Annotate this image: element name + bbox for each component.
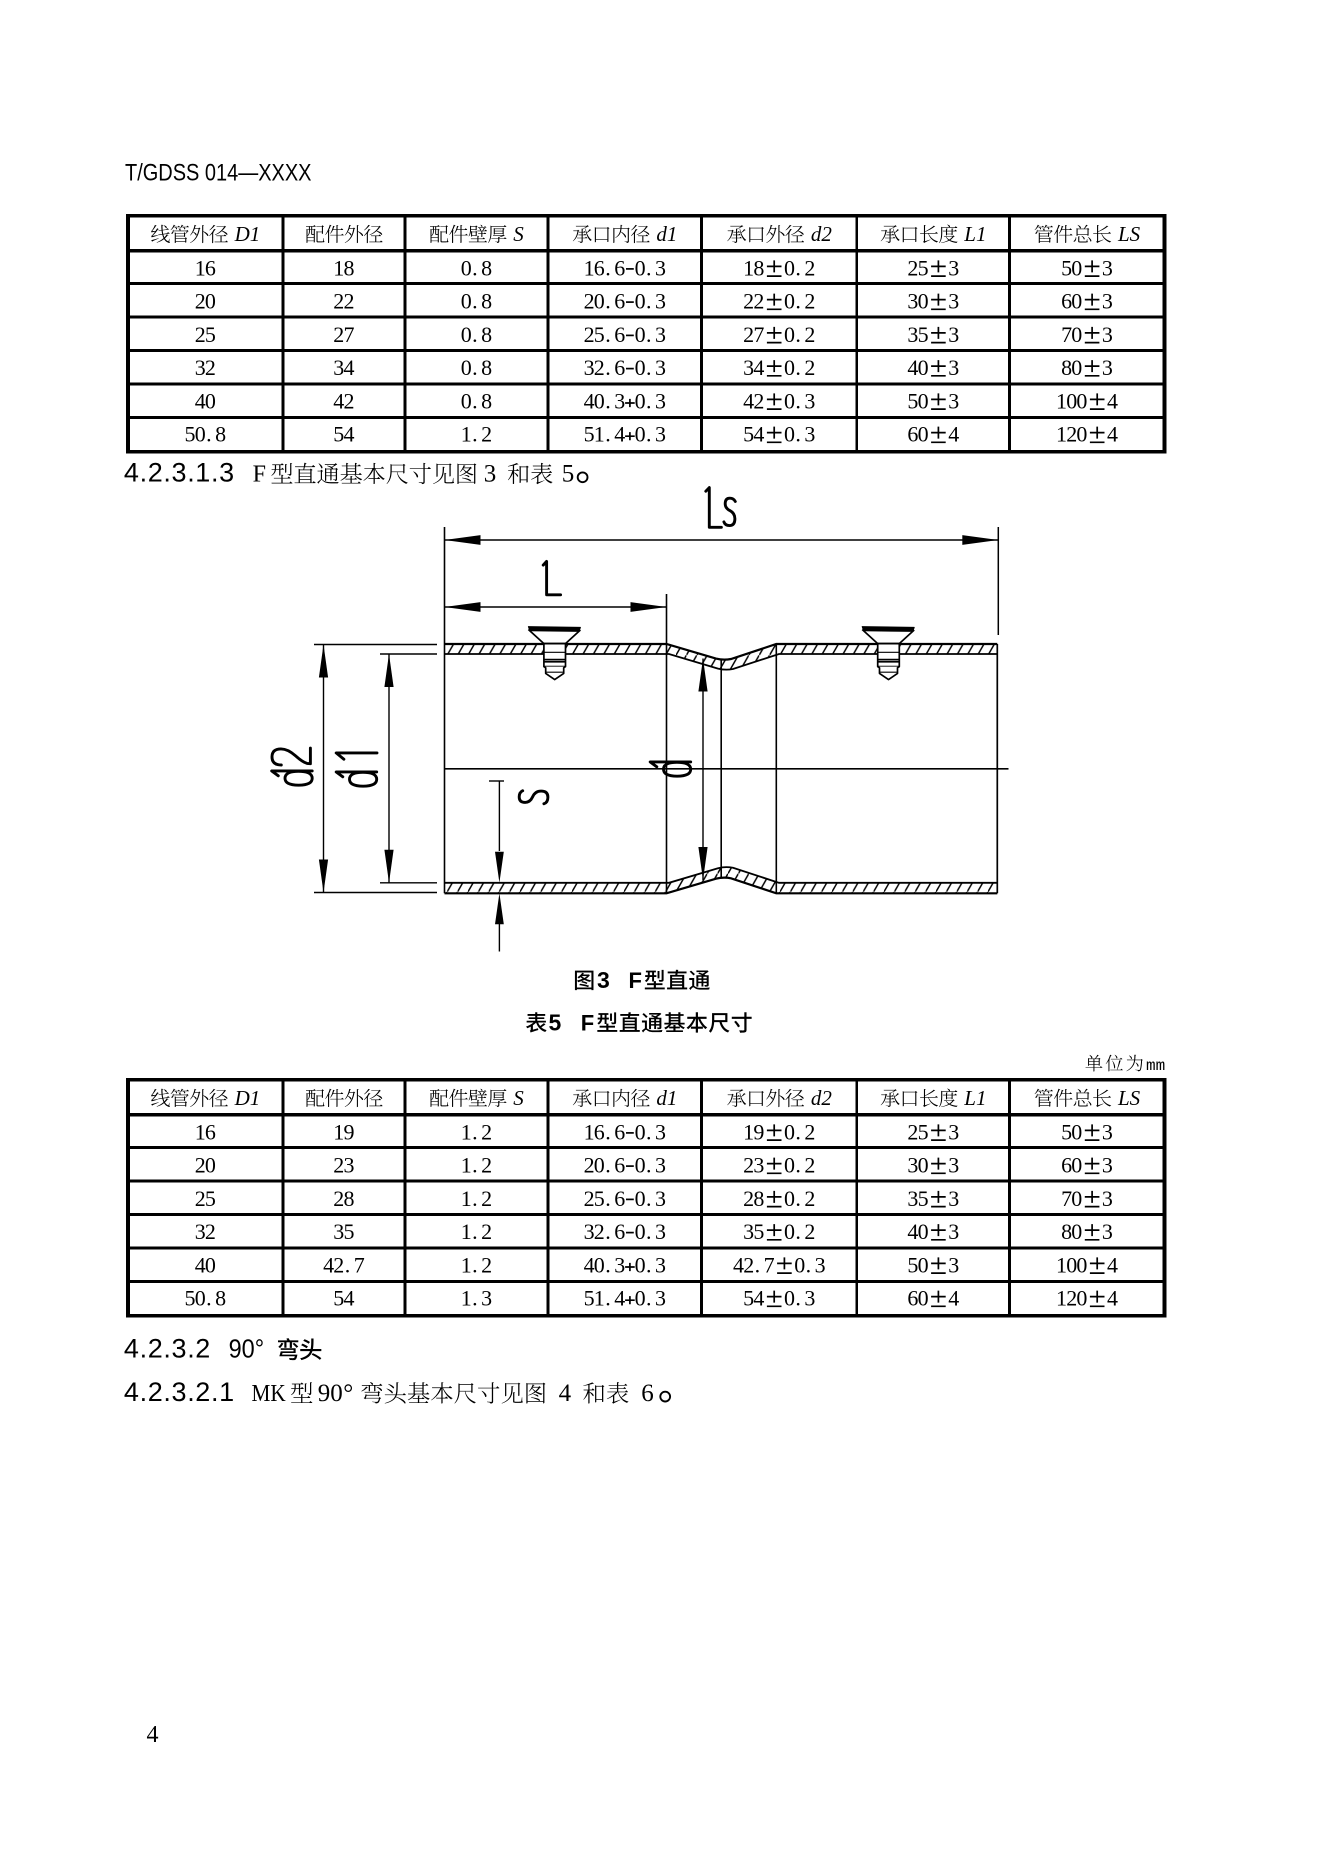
label L	[543, 561, 560, 594]
svg-text:35: 35	[333, 1219, 354, 1244]
screw right	[862, 627, 914, 680]
table-5 (F-type sizes) row lines	[126, 1146, 1166, 1149]
svg-text:90: 90	[318, 1380, 343, 1407]
table-4 (E-type sizes) column lines	[281, 214, 284, 454]
svg-text:°: °	[343, 1380, 353, 1407]
svg-text:28: 28	[333, 1186, 354, 1211]
svg-text:3: 3	[484, 461, 497, 488]
svg-text:4: 4	[147, 1722, 159, 1748]
socket edge right	[775, 644, 777, 893]
label d	[650, 762, 691, 776]
svg-text:1.2: 1.2	[461, 1153, 492, 1178]
dimension Ls line	[445, 539, 999, 541]
svg-text:F: F	[253, 462, 266, 488]
svg-text:50.8: 50.8	[185, 422, 227, 447]
svg-text:1204: 1204	[1056, 422, 1118, 447]
svg-text:4: 4	[559, 1380, 572, 1407]
dimension d1	[380, 653, 437, 655]
svg-text:1004: 1004	[1056, 1252, 1118, 1277]
svg-text:25: 25	[195, 1186, 216, 1211]
svg-text:32: 32	[195, 1219, 216, 1244]
table-5 (F-type sizes) header cells	[151, 1089, 170, 1107]
svg-text:T/GDSS 014—XXXX: T/GDSS 014—XXXX	[125, 160, 312, 187]
svg-text:42: 42	[333, 388, 354, 413]
svg-text:L1: L1	[963, 222, 986, 246]
svg-text:42.7: 42.7	[323, 1252, 365, 1277]
svg-text:d2: d2	[811, 1086, 833, 1110]
svg-text:1204: 1204	[1056, 1286, 1118, 1311]
mid joint line	[720, 660, 722, 878]
table-5 (F-type sizes) column lines	[281, 1078, 284, 1318]
svg-text:40: 40	[195, 1252, 216, 1277]
svg-text:32: 32	[195, 355, 216, 380]
svg-text:0.8: 0.8	[461, 322, 492, 347]
table-4 (E-type sizes) header separator	[126, 249, 1166, 253]
pipe left edge	[444, 527, 446, 893]
svg-text:23: 23	[333, 1153, 354, 1178]
hatched wall: top band	[445, 644, 998, 670]
svg-text:54: 54	[333, 1286, 354, 1311]
svg-text:mm: mm	[1146, 1057, 1165, 1075]
svg-text:1.3: 1.3	[461, 1286, 492, 1311]
caption: table 5	[526, 1012, 547, 1032]
svg-text:18: 18	[333, 255, 354, 280]
label S	[519, 791, 548, 804]
svg-text:1.2: 1.2	[461, 1186, 492, 1211]
svg-text:1.2: 1.2	[461, 1219, 492, 1244]
label d2	[272, 748, 313, 785]
svg-text:16: 16	[195, 1119, 216, 1144]
center line	[445, 768, 1009, 770]
svg-text:54: 54	[333, 422, 354, 447]
table-4 (E-type sizes) header cells	[151, 225, 170, 243]
svg-text:90°: 90°	[229, 1334, 265, 1364]
svg-text:40: 40	[195, 388, 216, 413]
svg-text:0.8: 0.8	[461, 255, 492, 280]
svg-text:0.8: 0.8	[461, 289, 492, 314]
label d1	[336, 753, 377, 786]
svg-text:d1: d1	[656, 222, 677, 246]
svg-text:3: 3	[597, 967, 610, 993]
table-4 (E-type sizes) row lines	[126, 282, 1166, 285]
dimension d2	[314, 644, 437, 646]
svg-text:25: 25	[195, 322, 216, 347]
svg-text:4.2.3.2: 4.2.3.2	[124, 1334, 210, 1364]
svg-text:MK: MK	[252, 1381, 287, 1407]
table-5 (F-type sizes) header separator	[126, 1113, 1166, 1117]
caption: figure 3	[575, 971, 594, 991]
svg-text:LS: LS	[1117, 1086, 1141, 1110]
svg-text:F: F	[581, 1010, 594, 1035]
svg-text:L1: L1	[963, 1086, 986, 1110]
unit note: 单位为mm	[1085, 1055, 1102, 1072]
svg-text:50.8: 50.8	[185, 1286, 227, 1311]
svg-text:D1: D1	[234, 222, 261, 246]
svg-text:6: 6	[641, 1380, 654, 1407]
svg-text:4.2.3.1.3: 4.2.3.1.3	[124, 458, 234, 488]
svg-text:LS: LS	[1117, 222, 1141, 246]
svg-text:27: 27	[333, 322, 354, 347]
svg-text:S: S	[513, 1086, 524, 1110]
label Ls	[706, 488, 736, 528]
table-5 (F-type sizes) outer border	[126, 1078, 1166, 1318]
svg-text:20: 20	[195, 1153, 216, 1178]
svg-text:22: 22	[333, 289, 354, 314]
svg-text:F: F	[629, 968, 642, 993]
svg-text:0.8: 0.8	[461, 388, 492, 413]
dimension S (wall thickness)	[489, 780, 504, 782]
svg-text:5: 5	[562, 461, 575, 488]
svg-text:1.2: 1.2	[461, 1252, 492, 1277]
svg-text:1.2: 1.2	[461, 1119, 492, 1144]
svg-text:S: S	[513, 222, 524, 246]
svg-text:19: 19	[333, 1119, 354, 1144]
svg-text:0.8: 0.8	[461, 355, 492, 380]
svg-text:1.2: 1.2	[461, 422, 492, 447]
svg-text:20: 20	[195, 289, 216, 314]
table-4 (E-type sizes) outer border	[126, 214, 1166, 454]
svg-text:34: 34	[333, 355, 354, 380]
pipe right edge	[996, 644, 998, 893]
socket edge left / L extension	[666, 594, 668, 893]
svg-text:5: 5	[549, 1009, 562, 1035]
svg-text:16: 16	[195, 255, 216, 280]
dimension L line	[445, 606, 667, 608]
dimension d (waist)	[702, 659, 704, 881]
svg-text:D1: D1	[234, 1086, 261, 1110]
svg-text:d2: d2	[811, 222, 833, 246]
screw left	[528, 627, 580, 680]
svg-text:4.2.3.2.1: 4.2.3.2.1	[124, 1377, 234, 1407]
svg-text:d1: d1	[656, 1086, 677, 1110]
hatched wall: bottom band	[445, 867, 998, 893]
svg-text:1004: 1004	[1056, 388, 1118, 413]
Ls right extension line	[997, 527, 999, 635]
